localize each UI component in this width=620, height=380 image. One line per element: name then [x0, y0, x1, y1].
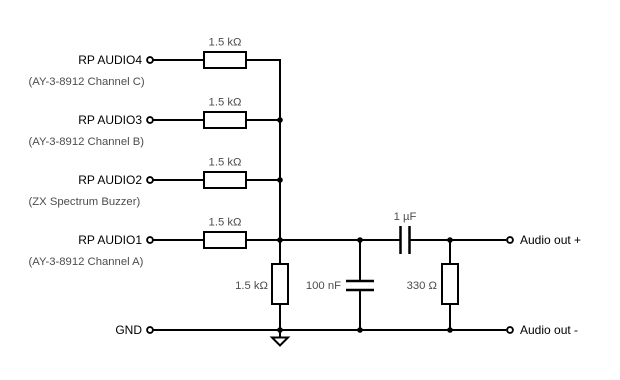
svg-text:1.5 kΩ: 1.5 kΩ [209, 37, 242, 49]
svg-text:(AY-3-8912 Channel C): (AY-3-8912 Channel C) [29, 76, 145, 88]
svg-text:1 µF: 1 µF [394, 211, 417, 223]
svg-text:1.5 kΩ: 1.5 kΩ [209, 97, 242, 109]
svg-text:RP AUDIO3: RP AUDIO3 [78, 113, 142, 127]
svg-text:Audio out +: Audio out + [520, 233, 581, 247]
svg-text:1.5 kΩ: 1.5 kΩ [209, 217, 242, 229]
svg-text:1.5 kΩ: 1.5 kΩ [235, 280, 268, 292]
svg-text:(AY-3-8912 Channel B): (AY-3-8912 Channel B) [29, 136, 145, 148]
svg-text:RP AUDIO1: RP AUDIO1 [78, 233, 142, 247]
svg-text:(AY-3-8912 Channel A): (AY-3-8912 Channel A) [29, 256, 144, 268]
svg-text:(ZX Spectrum Buzzer): (ZX Spectrum Buzzer) [29, 196, 141, 208]
svg-text:GND: GND [115, 323, 142, 337]
svg-text:330 Ω: 330 Ω [407, 280, 437, 292]
svg-text:100 nF: 100 nF [306, 280, 341, 292]
svg-text:Audio out -: Audio out - [520, 323, 578, 337]
svg-text:RP AUDIO2: RP AUDIO2 [78, 173, 142, 187]
svg-text:1.5 kΩ: 1.5 kΩ [209, 157, 242, 169]
svg-text:RP AUDIO4: RP AUDIO4 [78, 53, 142, 67]
